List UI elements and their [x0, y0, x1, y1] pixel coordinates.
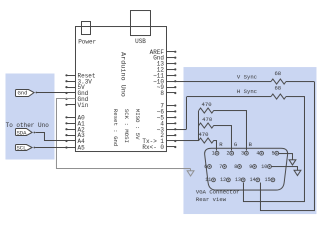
svg-text:12: 12: [220, 177, 226, 183]
svg-text:Reset : Gnd: Reset : Gnd: [112, 109, 119, 147]
svg-text:SDA: SDA: [16, 130, 27, 137]
svg-text:A5: A5: [77, 145, 85, 152]
svg-text:2: 2: [226, 151, 229, 157]
svg-text:6: 6: [204, 164, 207, 170]
svg-text:7: 7: [219, 164, 222, 170]
svg-text:9: 9: [249, 164, 252, 170]
svg-text:V Sync: V Sync: [237, 73, 257, 80]
svg-text:470: 470: [198, 131, 209, 138]
svg-text:3: 3: [241, 151, 244, 157]
svg-text:15: 15: [265, 177, 271, 183]
svg-text:10: 10: [261, 164, 267, 170]
svg-text:68: 68: [274, 85, 281, 92]
svg-text:8: 8: [160, 90, 164, 97]
svg-text:Vin: Vin: [77, 102, 88, 109]
svg-text:USB: USB: [135, 38, 146, 45]
svg-text:SCL: SCL: [16, 145, 26, 152]
svg-text:13: 13: [235, 177, 241, 183]
svg-text:To other Uno: To other Uno: [6, 122, 50, 129]
svg-text:5: 5: [272, 151, 275, 157]
svg-text:1: 1: [212, 151, 215, 157]
svg-text:Rx<- 0: Rx<- 0: [142, 144, 164, 151]
svg-text:470: 470: [202, 101, 213, 108]
svg-text:8: 8: [234, 164, 237, 170]
svg-text:11: 11: [205, 177, 211, 183]
svg-text:470: 470: [202, 116, 213, 123]
svg-text:SCK : MOSI: SCK : MOSI: [123, 109, 130, 143]
svg-text:VGA Connector: VGA Connector: [196, 189, 240, 196]
svg-text:Arduino Uno: Arduino Uno: [118, 52, 126, 97]
svg-text:14: 14: [250, 177, 256, 183]
svg-text:MISO : 5V: MISO : 5V: [134, 109, 141, 140]
svg-text:Gnd: Gnd: [17, 90, 27, 97]
svg-text:Power: Power: [78, 39, 96, 46]
svg-text:H Sync: H Sync: [237, 88, 257, 95]
svg-text:4: 4: [256, 151, 259, 157]
svg-text:Rear view: Rear view: [196, 196, 227, 203]
svg-text:68: 68: [274, 70, 281, 77]
